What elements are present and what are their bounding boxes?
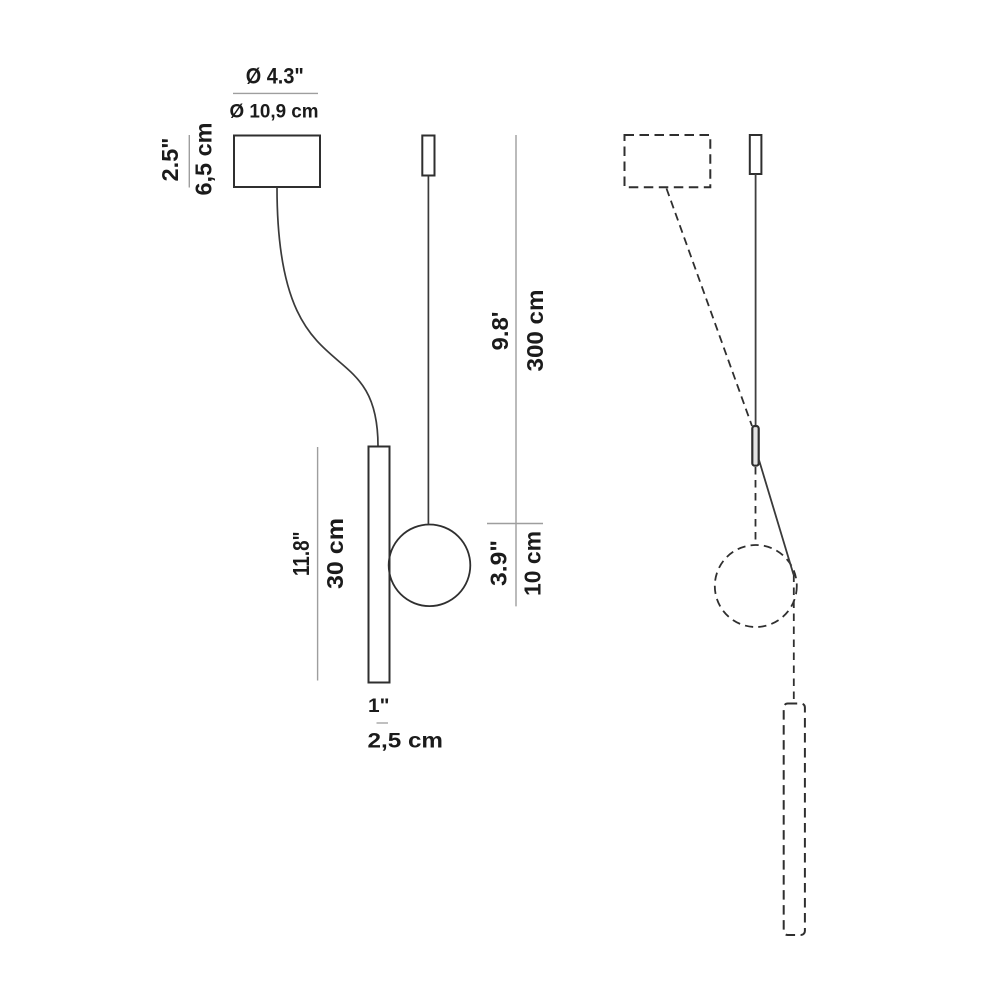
svg-text:2,5 cm: 2,5 cm [368, 729, 444, 753]
svg-text:10 cm: 10 cm [520, 531, 546, 596]
svg-text:Ø 4.3": Ø 4.3" [246, 64, 304, 89]
svg-text:30 cm: 30 cm [322, 518, 348, 589]
svg-text:9.8': 9.8' [487, 312, 513, 351]
svg-text:300 cm: 300 cm [522, 290, 548, 372]
svg-text:Ø 10,9 cm: Ø 10,9 cm [230, 101, 319, 123]
svg-text:6,5 cm: 6,5 cm [191, 123, 217, 196]
svg-text:2.5": 2.5" [157, 138, 183, 182]
svg-text:1": 1" [368, 695, 390, 717]
svg-text:11.8": 11.8" [288, 532, 314, 577]
svg-text:3.9": 3.9" [486, 540, 512, 586]
